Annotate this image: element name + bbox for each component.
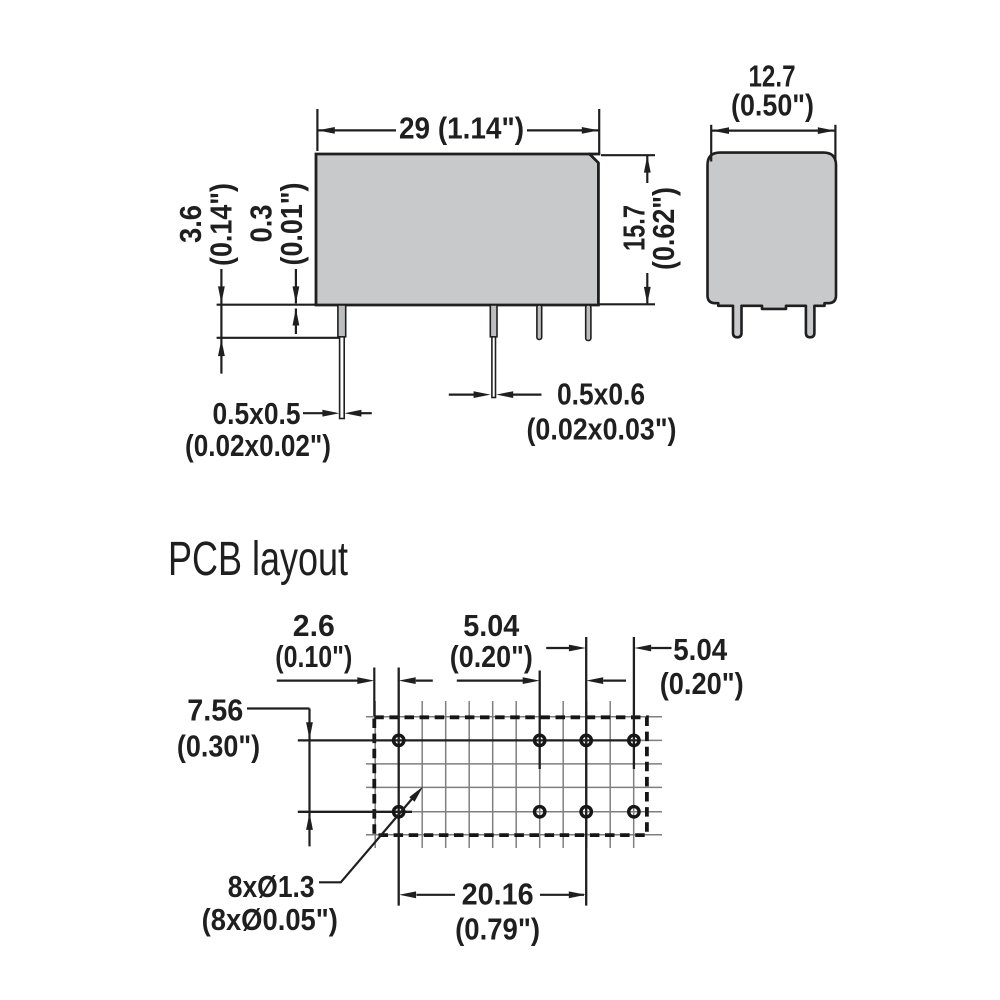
dim 12.7 line: [711, 130, 837, 132]
pin 1 lower narrow section: [340, 337, 345, 419]
dim 15.7 extension top: [601, 154, 655, 156]
svg-text:(0.20"): (0.20"): [660, 666, 744, 701]
hole 7: [581, 807, 591, 817]
hole 4: [629, 735, 639, 745]
dim 0.5x0.5 tail right: [361, 412, 372, 414]
dim 7.56 leader: [247, 707, 310, 709]
dim 15.7 line top segment: [646, 155, 648, 183]
dim 29 extension line left: [316, 109, 318, 151]
dim 0.5x0.6 arrow left-pointing: [496, 391, 513, 398]
dim 29 arrow right: [582, 127, 599, 134]
hole column line 4: [633, 637, 635, 769]
pcb grid vertical lines: [375, 701, 634, 848]
dim 7.56 arrow down: [306, 722, 313, 739]
dim 5.04 mid tail right: [603, 679, 626, 681]
extension line A (body bottom extended left): [217, 304, 317, 306]
svg-text:5.04: 5.04: [673, 632, 728, 667]
hole column line 3: [585, 637, 587, 906]
hole row line 1 extension: [298, 739, 640, 741]
dim 3.6 line: [220, 269, 222, 374]
dim 2.6 extension line: [373, 668, 375, 717]
dim 5.04 right arrow right-pointing: [569, 645, 586, 652]
hole column line 2: [539, 671, 541, 770]
hole column line 1: [398, 668, 400, 906]
svg-text:7.56: 7.56: [187, 692, 243, 727]
svg-text:(0.20"): (0.20"): [450, 639, 533, 674]
dim 5.04 mid arrow right-pointing: [523, 677, 540, 684]
dim 0.5x0.5 arrow right-pointing: [322, 410, 339, 417]
svg-text:(0.01"): (0.01"): [274, 183, 309, 266]
dim 20.16 line right segment: [540, 894, 584, 896]
hole 1: [394, 735, 404, 745]
dim 20.16 line left segment: [417, 894, 456, 896]
dim 12.7 arrow left: [712, 127, 729, 134]
svg-text:0.5x0.6: 0.5x0.6: [557, 377, 645, 412]
svg-text:0.5x0.5: 0.5x0.5: [213, 396, 301, 431]
hole 6: [535, 807, 545, 817]
leader line 8xD1.3: [319, 793, 417, 882]
dim 7.56 line: [308, 709, 310, 847]
hole 2: [535, 735, 545, 745]
dim 5.04 mid tail left: [457, 679, 524, 681]
dim 5.04 right tail: [651, 647, 671, 649]
dim 0.5x0.6 tail right: [513, 394, 542, 396]
svg-text:(0.62"): (0.62"): [646, 187, 681, 270]
dim 12.7 extension right: [834, 125, 836, 162]
hole 8: [629, 807, 639, 817]
dim 15.7 line bottom segment: [646, 273, 648, 304]
svg-text:20.16: 20.16: [462, 876, 534, 911]
svg-text:2.6: 2.6: [293, 608, 335, 643]
relay body side view with pins: [708, 153, 837, 338]
dim 29 line right segment: [527, 129, 599, 131]
dim 5.04 right arrow left-pointing: [634, 645, 651, 652]
svg-text:(0.50"): (0.50"): [731, 88, 814, 123]
dim 0.5x0.6 arrow right-pointing: [474, 391, 491, 398]
pin 1 upper wide section: [338, 305, 346, 337]
dim 0.3 arrow down: [293, 286, 300, 303]
dim 7.56 arrow up: [306, 813, 313, 830]
pcb grid horizontal lines: [366, 717, 662, 835]
svg-text:5.04: 5.04: [463, 608, 520, 643]
dim 0.3 line upper: [295, 269, 297, 303]
leader arrowhead: [409, 787, 423, 802]
pin 3 short: [537, 305, 542, 340]
dim 5.04 right tail left: [546, 647, 570, 649]
svg-text:(8xØ0.05"): (8xØ0.05"): [202, 902, 338, 937]
dim 0.5x0.6 tail left: [449, 394, 475, 396]
dim 0.3 line lower: [295, 309, 297, 335]
pin 2 lower narrow section: [492, 337, 496, 398]
body top-right corner notch top edge: [589, 153, 601, 156]
pcb dashed outline: [374, 717, 647, 835]
svg-text:8xØ1.3: 8xØ1.3: [228, 869, 315, 904]
dim 2.6 arrow right-pointing: [357, 677, 374, 684]
svg-text:29 (1.14"): 29 (1.14"): [399, 111, 524, 146]
svg-text:(0.14"): (0.14"): [204, 183, 239, 266]
svg-text:PCB layout: PCB layout: [168, 533, 348, 586]
pin 4 short: [586, 305, 591, 341]
svg-text:(0.79"): (0.79"): [455, 912, 540, 947]
pin 2 upper wide section: [490, 305, 497, 337]
dim 12.7 arrow right: [818, 127, 835, 134]
extension line B (pin shoulder): [217, 337, 340, 339]
svg-text:(0.02x0.02"): (0.02x0.02"): [185, 428, 331, 463]
dim 29 arrow left: [318, 127, 335, 134]
dim 3.6 arrow up: [218, 339, 225, 356]
dim 15.7 arrow down: [644, 287, 651, 304]
dim 5.04 mid arrow left-pointing: [586, 677, 603, 684]
hole row line 2 extension: [298, 811, 412, 813]
dim 0.5x0.5 line left: [303, 412, 324, 414]
svg-text:(0.30"): (0.30"): [177, 729, 260, 764]
relay body front view: [316, 154, 598, 305]
dim 15.7 extension bottom: [599, 303, 655, 305]
dim 29 extension line right: [598, 109, 600, 154]
dim 0.5x0.5 arrow left-pointing: [344, 410, 361, 417]
dim 3.6 arrow down: [218, 286, 225, 303]
dim 2.6 tail left: [277, 679, 358, 681]
dim 29 line left segment: [317, 129, 396, 131]
dim 15.7 arrow up: [644, 156, 651, 173]
dim 2.6 tail right: [416, 679, 433, 681]
dim 12.7 extension left: [710, 125, 712, 162]
hole 3: [581, 735, 591, 745]
dim 20.16 arrow left: [399, 891, 416, 898]
svg-text:(0.02x0.03"): (0.02x0.03"): [527, 412, 677, 447]
svg-text:(0.10"): (0.10"): [275, 639, 352, 674]
dim 0.3 arrow up: [293, 309, 300, 326]
dim 2.6 arrow left-pointing: [399, 677, 416, 684]
hole 5: [394, 807, 404, 817]
dim 20.16 arrow right: [569, 891, 586, 898]
